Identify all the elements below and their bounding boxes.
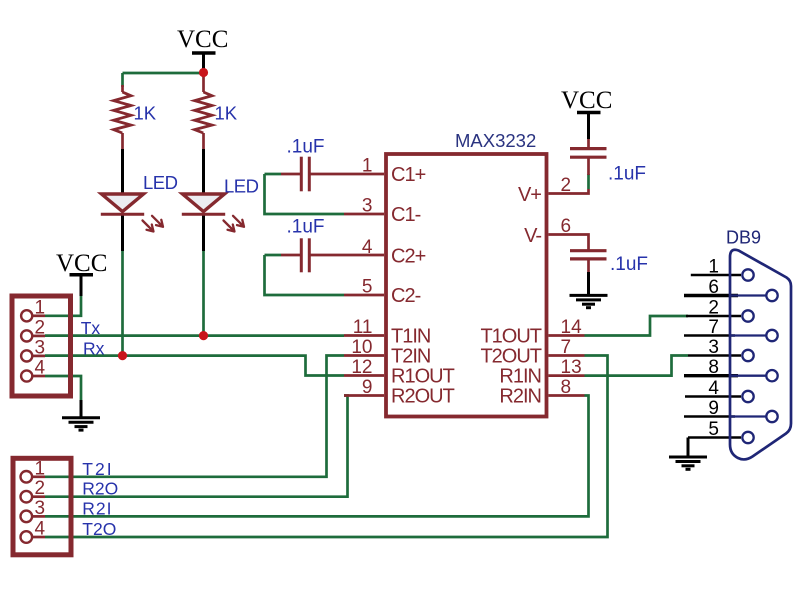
svg-text:4: 4 <box>708 378 719 399</box>
svg-text:4: 4 <box>35 519 46 540</box>
svg-text:6: 6 <box>561 216 572 237</box>
svg-text:R2IN: R2IN <box>499 386 541 408</box>
svg-text:3: 3 <box>708 337 719 358</box>
svg-text:1K: 1K <box>215 103 238 124</box>
svg-text:1: 1 <box>35 297 46 318</box>
svg-text:Tx: Tx <box>81 318 101 338</box>
svg-text:.1uF: .1uF <box>287 217 325 238</box>
svg-text:R2I: R2I <box>82 498 112 518</box>
svg-text:12: 12 <box>351 357 372 378</box>
svg-text:T1IN: T1IN <box>391 326 430 348</box>
svg-text:.1uF: .1uF <box>608 164 646 185</box>
svg-text:VCC: VCC <box>561 87 612 114</box>
svg-text:1: 1 <box>708 257 719 278</box>
svg-text:MAX3232: MAX3232 <box>455 130 536 151</box>
svg-text:T2OUT: T2OUT <box>480 346 541 368</box>
svg-text:5: 5 <box>362 277 373 298</box>
svg-text:VCC: VCC <box>56 250 107 277</box>
svg-text:LED: LED <box>224 176 259 197</box>
svg-text:T1OUT: T1OUT <box>480 326 541 348</box>
svg-text:2: 2 <box>35 317 46 338</box>
svg-text:R1IN: R1IN <box>499 366 541 388</box>
svg-text:T2I: T2I <box>82 459 113 479</box>
svg-text:10: 10 <box>351 337 372 358</box>
svg-text:.1uF: .1uF <box>287 137 325 158</box>
svg-text:2: 2 <box>708 298 719 319</box>
svg-text:C2+: C2+ <box>391 246 426 268</box>
svg-text:8: 8 <box>708 357 719 378</box>
svg-text:DB9: DB9 <box>726 228 761 248</box>
svg-text:2: 2 <box>561 175 572 196</box>
svg-text:LED: LED <box>143 172 178 193</box>
svg-text:8: 8 <box>561 377 572 398</box>
svg-text:5: 5 <box>708 419 719 440</box>
svg-text:1: 1 <box>35 458 46 479</box>
svg-text:1K: 1K <box>134 103 157 124</box>
svg-text:14: 14 <box>561 317 583 338</box>
svg-text:3: 3 <box>35 337 46 358</box>
svg-text:T2O: T2O <box>82 519 116 539</box>
svg-text:7: 7 <box>708 317 719 338</box>
svg-text:11: 11 <box>353 317 373 338</box>
svg-text:3: 3 <box>35 498 46 519</box>
svg-text:C2-: C2- <box>391 285 421 307</box>
svg-text:4: 4 <box>362 237 373 258</box>
svg-text:VCC: VCC <box>177 26 228 53</box>
svg-text:7: 7 <box>561 337 572 358</box>
svg-text:C1-: C1- <box>391 204 421 226</box>
svg-text:2: 2 <box>35 478 46 499</box>
svg-text:.1uF: .1uF <box>610 254 648 275</box>
svg-text:V-: V- <box>524 225 541 247</box>
svg-text:T2IN: T2IN <box>391 346 430 368</box>
svg-text:1: 1 <box>362 156 373 177</box>
svg-text:13: 13 <box>561 357 582 378</box>
svg-text:6: 6 <box>708 277 719 298</box>
svg-text:R2OUT: R2OUT <box>391 386 455 408</box>
svg-text:R1OUT: R1OUT <box>391 366 455 388</box>
svg-text:3: 3 <box>362 196 373 217</box>
svg-text:Rx: Rx <box>83 339 105 359</box>
svg-text:9: 9 <box>708 398 719 419</box>
svg-text:9: 9 <box>362 377 373 398</box>
svg-text:V+: V+ <box>518 184 541 206</box>
svg-text:R2O: R2O <box>82 479 118 499</box>
svg-text:C1+: C1+ <box>391 164 426 186</box>
svg-text:4: 4 <box>35 358 46 379</box>
